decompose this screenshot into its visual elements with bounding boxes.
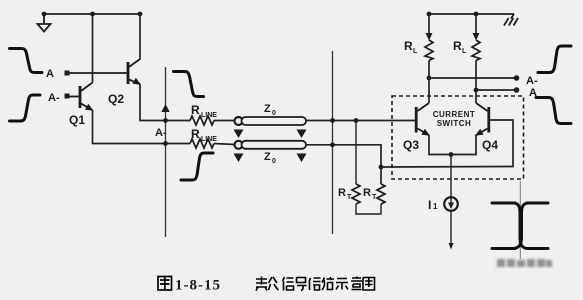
label Z0 bottom xyxy=(264,151,276,165)
node dot emitters junction xyxy=(449,152,454,157)
transistor Q2 xyxy=(65,59,142,85)
resistor RT2 xyxy=(377,184,385,204)
transmission line Z0 top xyxy=(234,117,307,138)
caption chinese title glyphs xyxy=(256,277,375,291)
svg-text:R: R xyxy=(453,39,462,53)
node probe line 2 vertical xyxy=(332,51,334,234)
svg-text:CURRENT: CURRENT xyxy=(433,110,476,119)
node dot RL1 out xyxy=(427,76,432,81)
node dot on bottom line xyxy=(163,141,168,146)
resistor RLINE2 xyxy=(190,139,214,148)
svg-text:0: 0 xyxy=(272,110,276,117)
label RL2 xyxy=(453,39,467,55)
label I1 xyxy=(428,198,438,212)
current source I1 xyxy=(444,155,458,250)
waveform mid falling edge xyxy=(174,72,204,97)
label Z0 top xyxy=(264,103,276,117)
wire top line from pill to Q3 base xyxy=(306,120,416,122)
resistor RT1 with leads xyxy=(352,121,381,215)
waveform mid rising edge xyxy=(181,153,213,180)
resistor RL2 with current arrow xyxy=(472,14,480,90)
svg-text:Q1: Q1 xyxy=(69,113,85,127)
svg-text:T: T xyxy=(347,194,352,201)
transistor Q1 xyxy=(65,83,94,111)
node bullet A xyxy=(514,87,520,93)
svg-text:A-: A- xyxy=(155,127,167,139)
svg-text:I: I xyxy=(428,198,431,212)
svg-text:LINE: LINE xyxy=(201,112,217,119)
transmission line Z0 bottom xyxy=(234,141,307,162)
eye diagram sampling line xyxy=(519,181,521,259)
waveform input A- rising edge xyxy=(10,95,41,121)
svg-text:Q2: Q2 xyxy=(108,92,124,106)
svg-text:L: L xyxy=(413,48,418,55)
wire top-right rail xyxy=(429,13,514,15)
svg-text:Q4: Q4 xyxy=(482,138,498,152)
current switch dashed box xyxy=(392,96,524,179)
wire bottom signal line segment xyxy=(214,144,235,145)
svg-text:SWITCH: SWITCH xyxy=(437,119,472,128)
node dot RL2 out xyxy=(474,88,479,93)
label RT1 xyxy=(338,187,352,201)
svg-text:R: R xyxy=(363,187,371,199)
svg-text:A-: A- xyxy=(48,92,60,104)
node probe line A- vertical xyxy=(161,67,169,237)
wire Q1 collector to rail xyxy=(92,14,94,83)
caption figure number xyxy=(158,277,172,291)
node dot top line x356 xyxy=(354,118,359,123)
ground GND1 xyxy=(38,14,51,32)
svg-text:Z: Z xyxy=(264,151,271,163)
svg-text:R: R xyxy=(191,127,200,141)
wire bottom line left segment xyxy=(165,143,190,145)
node dots on top-right rail xyxy=(427,12,479,17)
svg-text:1-8-15: 1-8-15 xyxy=(175,278,221,294)
node junction dots on top-left rail xyxy=(42,12,143,17)
eye diagram waveform xyxy=(492,203,548,249)
wire output A xyxy=(476,89,514,91)
wire Q1 emitter down-and-right xyxy=(93,110,166,144)
node dot RT2 branch xyxy=(379,165,384,170)
wire bottom line from pill to corner xyxy=(306,145,381,184)
waveform input A falling edge xyxy=(10,49,43,73)
svg-text:R: R xyxy=(191,103,200,117)
label RL1 xyxy=(404,39,418,55)
ground earth symbol right xyxy=(504,14,518,26)
node dot bottom line x333 xyxy=(330,142,335,147)
svg-text:1: 1 xyxy=(433,202,438,211)
wire top-left rail xyxy=(43,13,142,15)
node bullet A- xyxy=(514,75,520,81)
waveform right rising edge xyxy=(538,46,571,73)
node dot top line x333 xyxy=(330,118,335,123)
label CURRENT SWITCH xyxy=(433,110,476,128)
svg-text:Q3: Q3 xyxy=(403,138,419,152)
watermark blur xyxy=(497,259,552,267)
svg-text:R: R xyxy=(338,187,346,199)
svg-text:T: T xyxy=(372,194,377,201)
wire Q2 emitter down-and-right xyxy=(140,84,190,121)
svg-text:A: A xyxy=(46,68,54,80)
svg-text:LINE: LINE xyxy=(201,136,217,143)
label RLINE2 xyxy=(191,127,217,143)
svg-text:0: 0 xyxy=(272,158,276,165)
svg-text:A-: A- xyxy=(526,75,538,87)
waveform right falling edge xyxy=(536,98,571,124)
wire output A- xyxy=(429,77,514,79)
wire branch to Q4 base xyxy=(381,120,513,167)
wire top signal line segment xyxy=(214,120,235,122)
transistor Q4 xyxy=(451,90,490,155)
transistor Q3 xyxy=(415,78,451,155)
svg-text:Z: Z xyxy=(264,103,271,115)
wire Q2 collector to rail xyxy=(139,14,141,60)
node dot A- on top line xyxy=(163,118,168,123)
resistor RL1 with current arrow xyxy=(425,14,433,78)
resistor RLINE1 xyxy=(190,116,214,125)
svg-text:L: L xyxy=(462,48,467,55)
label RT2 xyxy=(363,187,377,201)
svg-text:R: R xyxy=(404,39,413,53)
label RLINE1 xyxy=(191,103,217,119)
